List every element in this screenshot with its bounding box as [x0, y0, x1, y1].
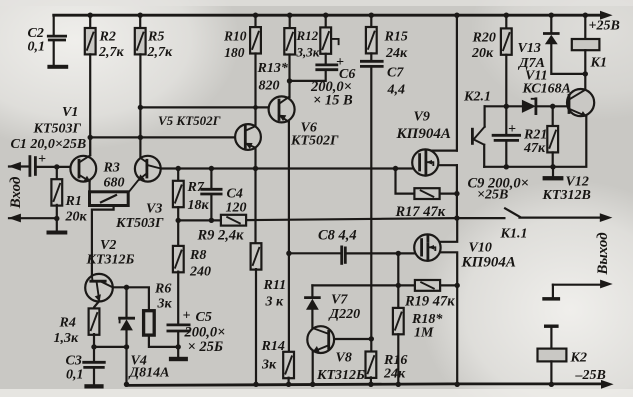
svg-text:R17 47к: R17 47к	[395, 204, 446, 220]
svg-text:18к: 18к	[188, 198, 210, 213]
svg-text:КП904А: КП904А	[396, 126, 451, 142]
svg-text:4,4: 4,4	[387, 83, 406, 98]
svg-text:Д814А: Д814А	[128, 366, 170, 381]
svg-text:К1: К1	[590, 56, 608, 71]
svg-text:×25В: ×25В	[477, 188, 508, 203]
svg-text:R14: R14	[261, 339, 285, 354]
svg-text:180: 180	[224, 45, 245, 60]
svg-text:КТ312В: КТ312В	[542, 188, 591, 203]
svg-text:820: 820	[259, 79, 280, 94]
svg-text:V9: V9	[414, 110, 430, 125]
svg-text:680: 680	[104, 176, 125, 191]
svg-text:× 25Б: × 25Б	[188, 339, 224, 355]
svg-text:КТ312Б: КТ312Б	[86, 253, 135, 268]
svg-text:R4: R4	[59, 316, 76, 331]
svg-text:24к: 24к	[385, 46, 408, 61]
svg-text:С7: С7	[387, 66, 404, 81]
svg-text:120: 120	[226, 201, 247, 216]
svg-text:КТ503Г: КТ503Г	[33, 122, 82, 137]
svg-text:V2: V2	[100, 238, 116, 253]
svg-text:С1 20,0×25В: С1 20,0×25В	[11, 137, 87, 152]
svg-text:R11: R11	[263, 278, 287, 293]
svg-text:+: +	[38, 152, 46, 167]
svg-text:КТ503Г: КТ503Г	[115, 216, 164, 231]
svg-text:R3: R3	[103, 161, 120, 176]
svg-text:С5: С5	[196, 310, 212, 325]
svg-text:2,7к: 2,7к	[98, 45, 125, 60]
svg-text:R10: R10	[223, 28, 247, 43]
svg-text:К2: К2	[570, 351, 588, 366]
svg-text:+25В: +25В	[589, 19, 620, 34]
svg-text:R6: R6	[154, 282, 171, 297]
svg-text:–25В: –25В	[575, 368, 606, 383]
svg-text:47к: 47к	[523, 141, 546, 156]
svg-text:КС168А: КС168А	[522, 82, 572, 97]
svg-text:КП904А: КП904А	[461, 255, 516, 271]
svg-text:R8: R8	[189, 248, 206, 263]
svg-text:1М: 1М	[414, 326, 434, 341]
svg-text:+: +	[508, 122, 516, 137]
svg-text:R2: R2	[99, 30, 116, 45]
svg-text:3к: 3к	[261, 358, 277, 373]
svg-text:24к: 24к	[383, 367, 406, 382]
svg-text:240: 240	[189, 265, 211, 280]
svg-text:20к: 20к	[65, 210, 88, 225]
svg-text:R15: R15	[384, 30, 408, 45]
svg-text:Вход: Вход	[8, 176, 24, 209]
svg-text:R7: R7	[187, 180, 205, 195]
svg-text:3 к: 3 к	[265, 295, 285, 310]
svg-text:× 15 В: × 15 В	[313, 93, 353, 109]
svg-text:1,3к: 1,3к	[54, 331, 80, 346]
svg-text:3,3к: 3,3к	[296, 45, 320, 60]
svg-text:R9 2,4к: R9 2,4к	[197, 228, 245, 244]
svg-text:С3: С3	[66, 354, 82, 369]
svg-text:0,1: 0,1	[28, 40, 46, 55]
svg-text:R19 47к: R19 47к	[404, 294, 455, 310]
svg-text:V3: V3	[146, 202, 162, 217]
svg-text:R1: R1	[65, 194, 82, 209]
svg-text:С4: С4	[227, 187, 243, 202]
svg-text:V13: V13	[518, 41, 541, 56]
svg-text:К1.1: К1.1	[500, 227, 528, 242]
svg-text:R5: R5	[147, 30, 164, 45]
svg-text:3к: 3к	[157, 297, 173, 312]
svg-text:2,7к: 2,7к	[147, 45, 174, 60]
svg-text:R12: R12	[296, 28, 319, 43]
svg-text:КТ312Б: КТ312Б	[316, 368, 365, 383]
svg-text:V1: V1	[62, 105, 78, 120]
svg-text:R13*: R13*	[257, 61, 289, 76]
svg-text:V7: V7	[331, 293, 348, 308]
svg-text:V10: V10	[469, 241, 492, 256]
svg-text:+: +	[183, 309, 191, 324]
svg-text:К2.1: К2.1	[463, 90, 491, 105]
svg-text:V5 КТ502Г: V5 КТ502Г	[158, 113, 221, 128]
svg-text:Д220: Д220	[328, 307, 361, 322]
svg-text:20к: 20к	[471, 46, 494, 61]
svg-text:Выход: Выход	[595, 232, 611, 276]
svg-text:КТ502Г: КТ502Г	[290, 134, 339, 149]
svg-text:+: +	[336, 55, 344, 70]
svg-text:V8: V8	[336, 351, 352, 366]
svg-text:С8 4,4: С8 4,4	[318, 228, 357, 244]
svg-text:R20: R20	[472, 31, 496, 46]
svg-text:0,1: 0,1	[66, 368, 84, 383]
